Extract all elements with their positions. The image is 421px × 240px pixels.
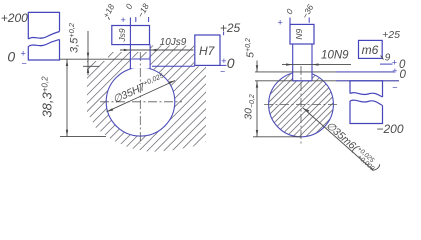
shaft keyway slot blank — [293, 66, 312, 81]
dim 3,5+0.2 — [87, 31, 89, 75]
svg-text:−: − — [220, 67, 225, 77]
svg-text:0: 0 — [7, 48, 15, 64]
keyway slot side right — [149, 45, 151, 69]
svg-text:Js9: Js9 — [117, 28, 127, 43]
tick at box top right — [223, 32, 225, 36]
tolerance box +200 (38.3+0.2) — [28, 12, 59, 60]
keyway slot blank (hub) — [131, 58, 150, 70]
svg-text:H7: H7 — [199, 44, 216, 58]
rotated label 0 (N9) — [284, 7, 295, 16]
keyway width dim 10N9 — [282, 64, 351, 66]
svg-text:+25: +25 — [382, 29, 400, 41]
dim 38.3+0.2 — [66, 59, 68, 136]
svg-text:+: + — [20, 49, 25, 59]
slot bottom blue — [293, 80, 312, 82]
zero line at keyway slot top (left) — [60, 58, 131, 60]
center lines (right) — [300, 66, 302, 144]
bore-top line stub (for 3.5 dim) — [83, 65, 100, 67]
keyway slot top line — [130, 58, 150, 60]
text 38,3+0.2 — [40, 76, 55, 118]
svg-text:+: + — [277, 18, 282, 28]
Js9 text in box — [117, 28, 127, 43]
H7 box — [195, 35, 220, 65]
circle-top line (right) — [255, 71, 394, 73]
dim 5+0.2 — [256, 61, 258, 72]
svg-text:+: + — [221, 56, 226, 66]
bottom extension (right) — [253, 136, 301, 138]
bottom extension line of circle (left) — [60, 136, 106, 138]
svg-text:+200: +200 — [1, 11, 28, 25]
center line vertical (left) — [139, 52, 141, 144]
N9 box — [290, 24, 314, 44]
keyway slot blank over circle top arc — [131, 58, 150, 69]
rotated labels +18 0 -18 — [108, 17, 109, 20]
svg-text:0: 0 — [399, 69, 406, 81]
Js9 box over keyway — [112, 26, 150, 45]
svg-text:10Js9: 10Js9 — [160, 37, 187, 48]
blue tick under -36 label — [308, 18, 310, 23]
blue right part of circle-top zero line — [336, 71, 394, 73]
m6 box — [359, 40, 383, 58]
svg-text:+25: +25 — [220, 21, 241, 35]
m6 zero line — [380, 63, 393, 65]
bore circle interior blank — [106, 68, 175, 137]
svg-text:−: − — [392, 83, 397, 93]
bore-top line to H7 box — [152, 65, 195, 67]
svg-text:−: − — [21, 59, 26, 69]
svg-text:N9: N9 — [294, 28, 304, 39]
svg-text:0: 0 — [227, 55, 235, 71]
zero line right of H7 box — [220, 64, 227, 66]
+9 with small arrow — [381, 56, 384, 60]
blue right part of slot-bottom zero line — [336, 80, 399, 82]
dim 30-0.2 — [256, 81, 258, 137]
svg-text:10N9: 10N9 — [321, 49, 349, 61]
keyway slot side left — [129, 45, 131, 69]
shaft slot blank over circle top arc — [293, 70, 312, 81]
svg-text:+: + — [120, 15, 125, 25]
keyway width dim 10Js9 — [120, 49, 194, 51]
bore diameter arrow Ø35H7 — [107, 81, 176, 112]
tolerance box -200 (30-0.2) — [350, 81, 383, 124]
blue ticks — [135, 17, 137, 22]
hatching shaft material — [126, 0, 421, 180]
N9 text in box — [294, 28, 304, 39]
rotated label -36 (N9) — [300, 3, 316, 21]
svg-text:m6: m6 — [362, 43, 379, 57]
shaft diameter leader Ø35m6 — [303, 108, 374, 171]
slot-bottom line (right) — [255, 80, 399, 82]
svg-text:−200: −200 — [376, 122, 403, 136]
slot sides (right) — [292, 44, 294, 81]
shaft circle Ø35m6 — [269, 72, 334, 137]
svg-text:9: 9 — [385, 53, 391, 64]
svg-text:+: + — [392, 66, 397, 76]
bore circle Ø35H7 — [106, 68, 175, 137]
text 3,5+0.2 — [67, 22, 81, 53]
center line horizontal (left) — [100, 101, 182, 103]
